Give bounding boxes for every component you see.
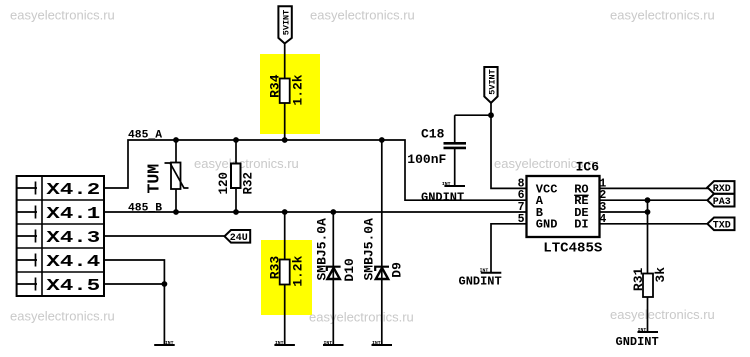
svg-text:INT: INT xyxy=(372,340,381,346)
svg-text:easyelectronics.ru: easyelectronics.ru xyxy=(309,310,414,325)
svg-text:R34: R34 xyxy=(268,74,283,98)
svg-text:485_A: 485_A xyxy=(128,129,162,141)
svg-text:INT: INT xyxy=(638,327,647,333)
svg-text:TXD: TXD xyxy=(713,220,731,231)
svg-text:GNDINT: GNDINT xyxy=(616,335,659,349)
svg-text:100nF: 100nF xyxy=(407,152,446,167)
svg-text:easyelectronics.ru: easyelectronics.ru xyxy=(610,307,715,322)
svg-text:SMBJ5.0A: SMBJ5.0A xyxy=(314,218,329,281)
svg-text:TUM: TUM xyxy=(145,164,164,194)
svg-text:INT: INT xyxy=(165,340,174,346)
svg-text:1.2k: 1.2k xyxy=(290,74,305,105)
svg-text:4: 4 xyxy=(599,213,606,226)
svg-text:5VINT: 5VINT xyxy=(488,69,498,95)
svg-text:3k: 3k xyxy=(653,267,668,283)
svg-text:X4.4: X4.4 xyxy=(46,251,100,271)
svg-text:D9: D9 xyxy=(389,262,404,278)
svg-text:R32: R32 xyxy=(242,172,256,195)
svg-text:24U: 24U xyxy=(230,233,248,244)
svg-text:X4.5: X4.5 xyxy=(46,275,100,295)
svg-text:easyelectronics.ru: easyelectronics.ru xyxy=(10,8,115,23)
svg-text:LTC485S: LTC485S xyxy=(543,241,602,257)
svg-text:485_B: 485_B xyxy=(128,202,162,214)
svg-text:R31: R31 xyxy=(631,268,646,292)
svg-text:5: 5 xyxy=(518,213,525,226)
svg-text:PA3: PA3 xyxy=(713,197,731,208)
svg-text:X4.1: X4.1 xyxy=(46,203,100,223)
svg-text:D10: D10 xyxy=(342,258,357,282)
svg-text:INT: INT xyxy=(480,268,489,274)
svg-text:5VINT: 5VINT xyxy=(281,10,291,36)
svg-text:X4.2: X4.2 xyxy=(46,179,100,199)
svg-text:easyelectronics.ru: easyelectronics.ru xyxy=(610,8,715,23)
svg-text:INT: INT xyxy=(442,181,451,187)
svg-text:easyelectronics.ru: easyelectronics.ru xyxy=(10,308,115,323)
svg-text:120: 120 xyxy=(217,172,231,195)
svg-text:INT: INT xyxy=(275,340,284,346)
svg-text:GNDINT: GNDINT xyxy=(421,191,464,205)
svg-text:GNDINT: GNDINT xyxy=(459,274,502,288)
svg-text:GND: GND xyxy=(536,218,558,232)
svg-text:easyelectronics.ru: easyelectronics.ru xyxy=(310,8,415,23)
svg-text:IC6: IC6 xyxy=(576,160,600,175)
svg-text:DI: DI xyxy=(574,218,588,232)
svg-text:C18: C18 xyxy=(421,127,445,142)
svg-text:easyelectronics.ru: easyelectronics.ru xyxy=(194,156,299,171)
svg-text:INT: INT xyxy=(323,340,332,346)
svg-text:SMBJ5.0A: SMBJ5.0A xyxy=(362,218,377,281)
svg-text:1.2k: 1.2k xyxy=(290,255,305,286)
svg-text:R33: R33 xyxy=(268,256,283,280)
svg-text:X4.3: X4.3 xyxy=(46,227,100,247)
